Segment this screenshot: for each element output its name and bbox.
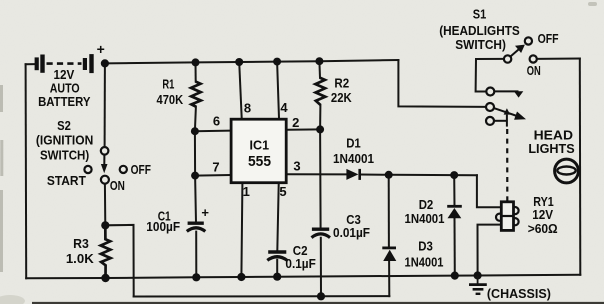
svg-text:D2: D2 (419, 197, 434, 212)
diode D3 1N4001 (382, 248, 396, 261)
svg-text:470K: 470K (157, 92, 184, 107)
relay RY1 coil (496, 196, 519, 230)
svg-text:+: + (97, 41, 105, 57)
wire pin2 to R2 bottom (288, 128, 320, 130)
capacitor C1 label (146, 209, 180, 235)
relay RY1 actuator dashed link (506, 129, 508, 196)
svg-text:IC1: IC1 (250, 137, 270, 152)
svg-text:3: 3 (293, 159, 300, 174)
pin 6 label (213, 114, 220, 129)
wire lower trigger rail (134, 295, 390, 297)
border frame left smudges (0, 85, 3, 272)
battery label (38, 67, 91, 109)
svg-text:1N4001: 1N4001 (333, 151, 374, 166)
svg-text:1N4001: 1N4001 (405, 254, 444, 269)
node pin8 top junction (235, 58, 243, 66)
wire D1 junction down to D3 (388, 175, 390, 248)
svg-text:1: 1 (243, 184, 250, 199)
svg-text:+: + (201, 205, 209, 220)
ground chassis (469, 276, 487, 294)
IC U1 555 box (231, 119, 286, 183)
svg-text:SWITCH): SWITCH) (455, 37, 506, 52)
resistor R3 1.0K (101, 225, 111, 278)
wire R3 top bypass down to trigger rail (105, 225, 133, 297)
wire S1 pole to relay contact c1 (476, 59, 504, 92)
svg-text:100µF: 100µF (146, 219, 180, 234)
wire S2 ON to R3 top (104, 184, 106, 226)
node C1 rail junction (192, 273, 200, 281)
wire right rail (579, 59, 582, 275)
node R3 top junction (101, 221, 109, 229)
svg-text:D1: D1 (346, 136, 361, 151)
svg-text:6: 6 (213, 114, 220, 129)
wire R2 bottom to C3 top (319, 105, 322, 228)
svg-text:S1: S1 (473, 6, 487, 21)
wire pin3 to D1 (288, 173, 346, 175)
lamp headlights (555, 159, 579, 183)
svg-text:12V: 12V (532, 207, 553, 222)
svg-text:2: 2 (292, 115, 299, 130)
node pin6 junction (191, 127, 199, 135)
node pin1 rail junction (237, 273, 245, 281)
node R3 bottom rail junction (101, 274, 109, 282)
svg-text:22K: 22K (331, 90, 352, 105)
svg-text:0.1µF: 0.1µF (285, 256, 315, 271)
node pin4 top junction (273, 58, 281, 66)
wire D3 bottom riser (388, 261, 390, 297)
wire S2 rail from battery dot (104, 63, 106, 147)
diode D2 label (405, 197, 445, 226)
wire relay coil bottom to ground rail (478, 225, 502, 276)
svg-text:R3: R3 (73, 236, 89, 251)
svg-text:SWITCH): SWITCH) (40, 148, 89, 163)
pin 5 label (279, 184, 286, 199)
wire V+ feed down to relay contact c2 (398, 60, 486, 107)
node battery+ junction (101, 59, 109, 67)
pin 8 label (244, 100, 251, 115)
wire C3 bottom lead (320, 238, 322, 296)
battery B1 12V (37, 41, 105, 73)
wire pin5 to C2 (277, 184, 278, 251)
wire C1 bottom lead (195, 232, 197, 278)
svg-text:5: 5 (279, 184, 286, 199)
node D2 top junction (450, 171, 458, 179)
switch S2 labels (36, 118, 151, 193)
resistor R1 label (157, 77, 184, 107)
wire relay coil top feed (477, 175, 501, 207)
wire S1 ON to right rail (537, 58, 580, 60)
svg-text:S2: S2 (57, 118, 71, 133)
capacitor C1 100uF (187, 205, 210, 231)
pin 7 label (212, 160, 219, 175)
node ground rail junction (474, 271, 482, 279)
capacitor C3 0.01uF (312, 229, 331, 237)
node C2 rail junction (273, 273, 281, 281)
smudge bottom left (0, 295, 25, 304)
wire pin7 (195, 174, 230, 177)
switch S2 ignition (84, 147, 127, 184)
ground label (487, 286, 551, 301)
svg-text:(HEADLIGHTS: (HEADLIGHTS (439, 23, 520, 38)
wire pin1 (241, 184, 242, 277)
relay RY1 label (528, 194, 558, 236)
svg-text:R1: R1 (162, 77, 174, 92)
svg-text:START: START (47, 173, 86, 188)
wire pin4 (277, 62, 279, 119)
resistor R2 label (331, 75, 352, 105)
lamp label (528, 128, 575, 157)
svg-text:(IGNITION: (IGNITION (36, 133, 93, 148)
smudge top right (588, 2, 597, 6)
wire R2 top lead (318, 61, 321, 78)
diode D3 label (405, 238, 444, 269)
pin 1 label (243, 184, 250, 199)
pin 4 label (280, 100, 288, 115)
node R1 top junction (192, 58, 200, 66)
relay RY1 contacts (486, 88, 526, 127)
svg-text:OFF: OFF (538, 31, 559, 46)
svg-text:0.01µF: 0.01µF (333, 225, 370, 240)
wire battery left lead (26, 63, 35, 65)
node R2 top junction (315, 57, 323, 65)
svg-text:ON: ON (110, 178, 125, 193)
svg-text:ON: ON (527, 63, 541, 78)
diode D2 1N4001 (447, 206, 462, 218)
capacitor C2 0.1uF (267, 252, 287, 260)
svg-text:OFF: OFF (131, 162, 151, 177)
pin 3 label (293, 159, 300, 174)
pin 2 label (292, 115, 299, 130)
wire pin6 (195, 130, 230, 133)
diode D1 label (333, 136, 374, 167)
wire pin8 (239, 62, 242, 118)
diode D1 1N4001 (346, 169, 359, 180)
resistor R3 label (66, 236, 95, 266)
node pin7 junction (191, 172, 199, 180)
resistor R1 470K (191, 82, 201, 107)
wire D2 top lead (453, 175, 455, 206)
svg-text:R2: R2 (334, 75, 349, 90)
svg-text:4: 4 (280, 100, 288, 115)
capacitor C2 label (285, 243, 315, 271)
wire D1 cathode to junction and on to relay feed corner (361, 174, 477, 177)
wire R1 bottom to pin6 junction (195, 107, 196, 223)
wire D2 bottom lead (454, 218, 456, 276)
wire left rail (25, 64, 28, 278)
svg-text:BATTERY: BATTERY (38, 94, 91, 109)
svg-text:(CHASSIS): (CHASSIS) (487, 286, 551, 301)
wire C2 bottom lead (276, 260, 278, 277)
svg-text:1.0K: 1.0K (66, 251, 95, 266)
border frame bottom (32, 302, 604, 304)
svg-text:555: 555 (248, 153, 271, 170)
resistor R2 22K (315, 78, 325, 105)
capacitor C3 label (333, 212, 370, 240)
wire top rail battery+ to R2 top (105, 60, 399, 63)
switch S1 labels (439, 6, 558, 78)
svg-text:7: 7 (212, 160, 219, 175)
node C3 trigger rail junction (317, 292, 325, 300)
wire relay c2 feed stub (485, 106, 487, 108)
svg-text:1N4001: 1N4001 (405, 211, 445, 226)
svg-text:D3: D3 (418, 238, 433, 253)
wire R1 C1 rail top lead (195, 62, 197, 81)
node D2 rail junction (451, 272, 459, 280)
switch S1 headlights (504, 37, 537, 62)
wire bottom ground rail (26, 275, 580, 278)
svg-text:>60Ω: >60Ω (528, 221, 558, 236)
node D1 cathode junction (385, 171, 393, 179)
node pin2 R2 junction (316, 125, 324, 133)
svg-text:8: 8 (244, 100, 251, 115)
svg-text:LIGHTS: LIGHTS (528, 141, 575, 156)
